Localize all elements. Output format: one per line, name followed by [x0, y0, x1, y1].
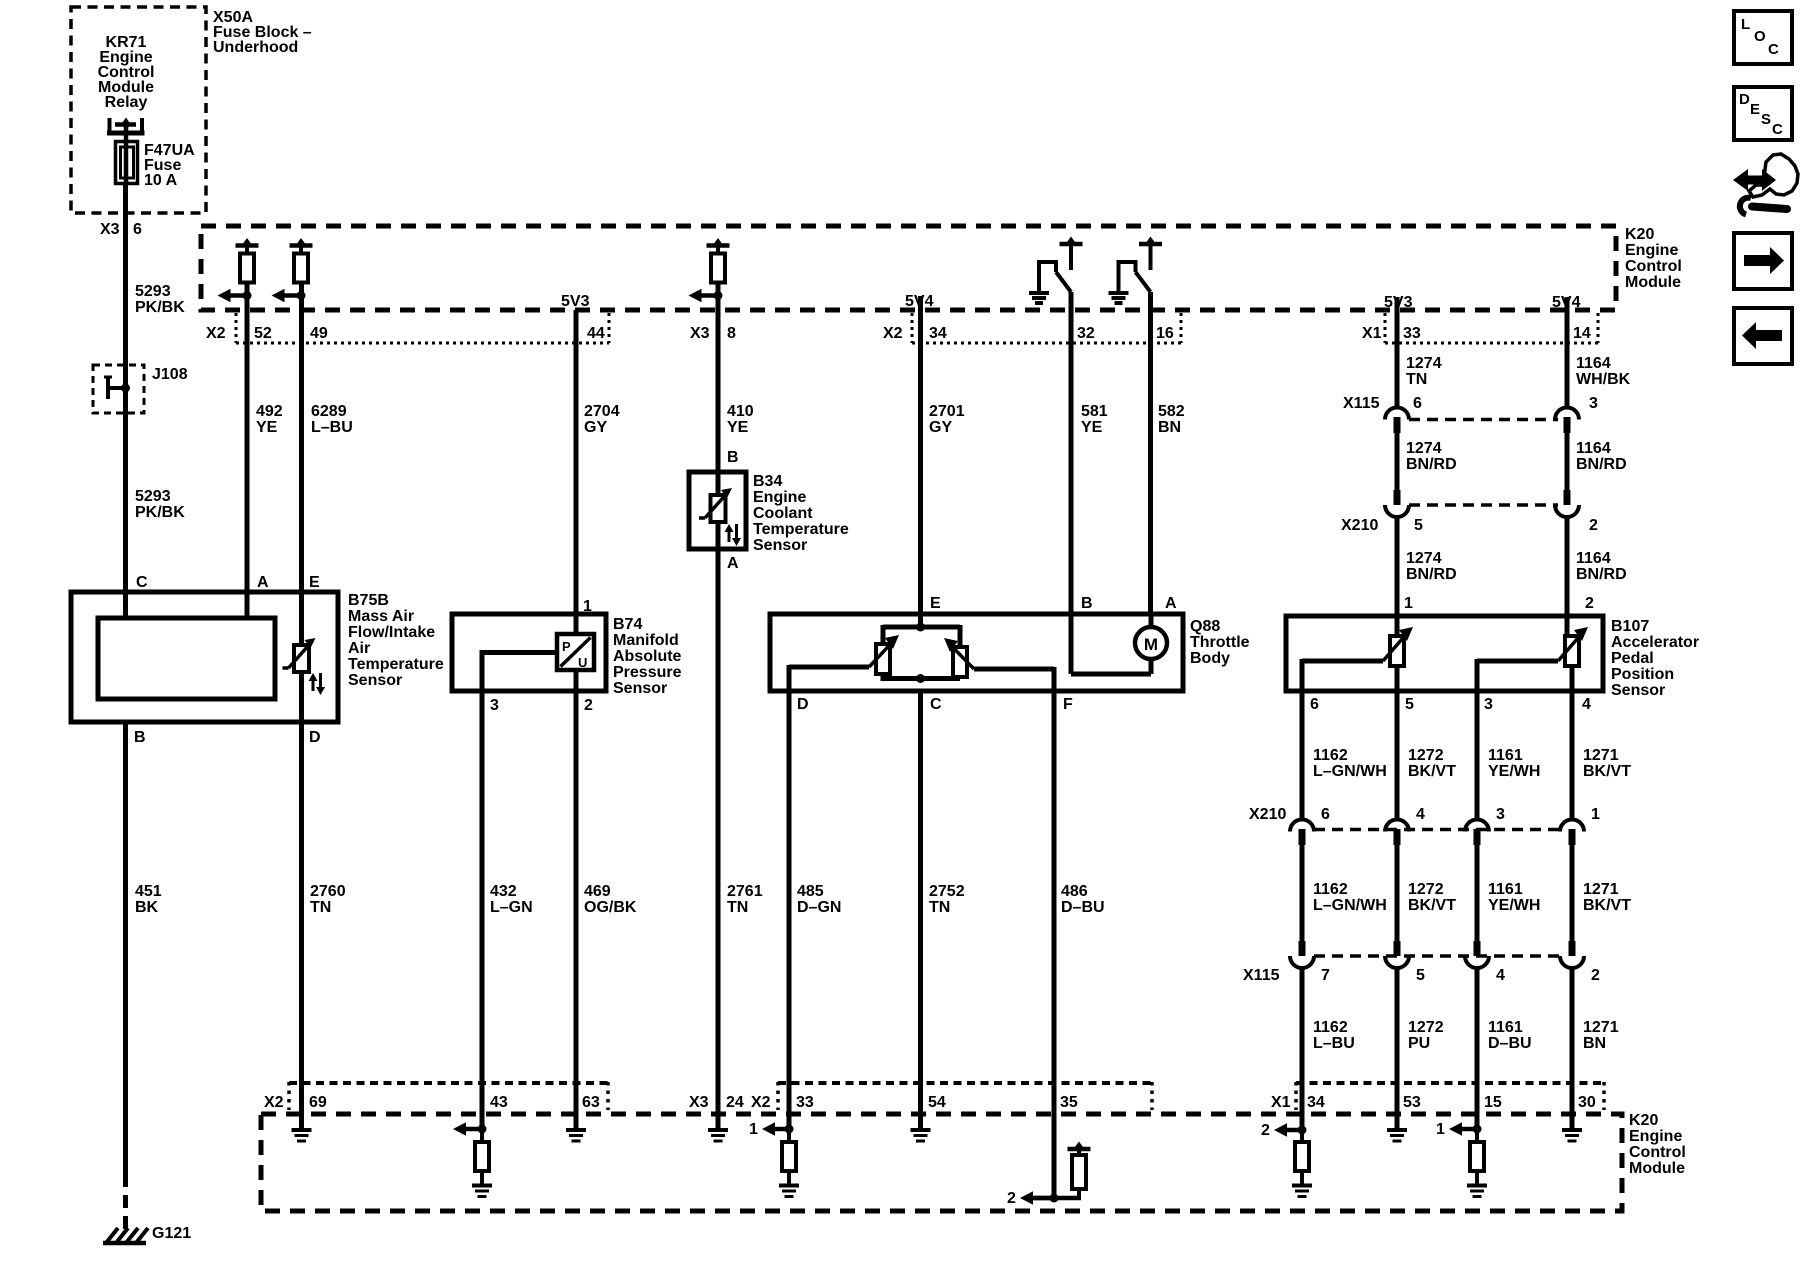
svg-text:1272: 1272: [1408, 747, 1444, 764]
label pin 2 X115 lower: [1591, 967, 1600, 984]
svg-text:581: 581: [1081, 403, 1108, 420]
svg-text:F: F: [1063, 696, 1073, 713]
label wire 1164 WH/BK: [1576, 355, 1631, 388]
splice J108 symbol: [104, 377, 130, 399]
label wire 1164 BN/RD (upper): [1576, 440, 1627, 473]
inline connector X210 pin 2: [1555, 490, 1579, 517]
svg-text:15: 15: [1484, 1094, 1502, 1111]
connector X2 band mid labels: [883, 325, 1174, 342]
icon DESC button: [1734, 87, 1792, 140]
inline connector dashes X210 lower row: [1314, 828, 1560, 832]
svg-text:BK/VT: BK/VT: [1408, 763, 1456, 780]
wire Q88 pot1 top leg: [881, 625, 886, 644]
page arrow at pin X3-8: [689, 289, 723, 303]
label wire 1162 L–GN/WH (mid): [1313, 881, 1387, 914]
label pin 6 X210 lower: [1321, 806, 1330, 823]
svg-text:2: 2: [1261, 1122, 1270, 1139]
svg-text:Flow/Intake: Flow/Intake: [348, 624, 435, 641]
label pin A (B34): [727, 555, 739, 572]
wire 1162 L–GN/WH (B107 pin to X210): [1300, 691, 1305, 820]
svg-text:D: D: [1739, 91, 1750, 108]
connector X1 band top labels: [1362, 325, 1591, 342]
svg-text:5293: 5293: [135, 488, 171, 505]
svg-text:Engine: Engine: [1629, 1128, 1682, 1145]
svg-text:M: M: [1144, 635, 1158, 654]
svg-text:451: 451: [135, 883, 162, 900]
svg-text:6: 6: [1321, 806, 1330, 823]
potentiometer TP sensor 1 (Q88): [869, 635, 899, 674]
svg-text:X210: X210: [1341, 517, 1378, 534]
connector X1 band top (pins 33 14): [1385, 313, 1598, 343]
label B107 Accelerator Pedal Position Sensor: [1611, 618, 1699, 699]
wire 451 BK (MAF B to ground): [123, 722, 128, 1232]
svg-text:TN: TN: [310, 899, 331, 916]
svg-text:5V4: 5V4: [1552, 294, 1581, 311]
wire B74 pin 2 to ECM pin 63 (469 OG/BK): [574, 670, 579, 1128]
label wire 2752 TN: [929, 883, 965, 916]
svg-text:Air: Air: [348, 640, 370, 657]
page arrow 1 at ECM pin 33: [749, 1121, 794, 1138]
thermistor inside B34: [699, 488, 732, 522]
label pin 2 (B107): [1585, 595, 1594, 612]
label wire 410 YE: [727, 403, 754, 436]
svg-text:2: 2: [1007, 1190, 1016, 1207]
svg-text:1272: 1272: [1408, 881, 1444, 898]
wire Q88 internal bottom bus: [881, 674, 960, 683]
ground below resistor pin 33: [779, 1186, 799, 1197]
label pin 2 (B74): [584, 697, 593, 714]
label wire 486 D-BU: [1061, 883, 1105, 916]
svg-text:2752: 2752: [929, 883, 965, 900]
wire B74 internal pin 3 link: [482, 650, 558, 691]
svg-text:X3: X3: [689, 1094, 709, 1111]
connector X2 band top labels: [206, 325, 605, 342]
svg-text:A: A: [257, 574, 269, 591]
svg-text:1161: 1161: [1488, 1019, 1523, 1036]
wire Q88 B to motor: [1071, 614, 1151, 674]
svg-text:Sensor: Sensor: [1611, 682, 1665, 699]
connector X2 band mid (pins 34 32 16): [912, 313, 1181, 343]
label wire 492 YE: [256, 403, 283, 436]
svg-text:1271: 1271: [1583, 747, 1619, 764]
svg-text:X2: X2: [751, 1094, 771, 1111]
wire 1271 BK/VT (X210 to X115): [1570, 843, 1575, 941]
svg-text:1271: 1271: [1583, 1019, 1619, 1036]
wire B107 pot1 to pin 5: [1395, 666, 1400, 691]
connector X1 band bottom labels: [1271, 1094, 1596, 1111]
svg-text:X1: X1: [1271, 1094, 1291, 1111]
icon schematic reference (arrows and wrench): [1733, 154, 1798, 215]
wire 1161 YE/WH (B107 pin to X210): [1475, 691, 1480, 820]
svg-text:L–BU: L–BU: [311, 419, 353, 436]
svg-text:BK/VT: BK/VT: [1583, 763, 1631, 780]
svg-text:C: C: [930, 696, 942, 713]
svg-text:6: 6: [1413, 395, 1422, 412]
svg-text:C: C: [1772, 121, 1783, 138]
page arrow at ECM pin 43: [453, 1122, 487, 1136]
sensor B34 Engine Coolant Temperature Sensor (box): [689, 472, 746, 549]
svg-text:BN/RD: BN/RD: [1406, 566, 1457, 583]
page arrow at pin 52: [218, 289, 252, 303]
svg-text:BN/RD: BN/RD: [1576, 456, 1627, 473]
label B34 Engine Coolant Temperature Sensor: [753, 473, 849, 554]
svg-text:2: 2: [1585, 595, 1594, 612]
label wire 2704 GY: [584, 403, 620, 436]
label wire 1271 BN: [1583, 1019, 1619, 1052]
svg-text:5: 5: [1405, 696, 1414, 713]
inline connector X115 pin 3: [1555, 408, 1579, 433]
svg-text:1164: 1164: [1576, 355, 1611, 372]
svg-text:Body: Body: [1190, 650, 1230, 667]
label pin 3 (B107): [1484, 696, 1493, 713]
svg-text:6: 6: [133, 221, 142, 238]
svg-text:3: 3: [1589, 395, 1598, 412]
ground below resistor pin X1-34: [1292, 1186, 1312, 1197]
svg-text:34: 34: [929, 325, 947, 342]
svg-text:1274: 1274: [1406, 550, 1442, 567]
label X210 (lower row): [1249, 806, 1286, 823]
ground G121 chassis: [103, 1228, 148, 1243]
label wire 2701 GY: [929, 403, 965, 436]
label F47UA Fuse 10 A: [144, 142, 195, 189]
svg-text:C: C: [1768, 41, 1779, 58]
wire 1161 D–BU (X115 to ECM): [1475, 967, 1480, 1129]
wire 581 YE (pin 32 to Q88 B): [1069, 292, 1074, 616]
inline connector X210 pin 3 (lower row): [1465, 820, 1489, 845]
svg-text:5V3: 5V3: [1384, 294, 1413, 311]
svg-text:1: 1: [749, 1121, 758, 1138]
splice J108 (dashed box): [93, 365, 144, 413]
label wire 1162 L–GN/WH (upper): [1313, 747, 1387, 780]
svg-text:Pressure: Pressure: [613, 664, 682, 681]
svg-text:X115: X115: [1243, 967, 1280, 984]
svg-text:TN: TN: [727, 899, 748, 916]
node 5V3 label at pin 44: [561, 293, 590, 310]
sensor B107 Accelerator Pedal Position Sensor (box): [1286, 616, 1603, 691]
svg-text:YE: YE: [727, 419, 749, 436]
svg-text:35: 35: [1060, 1094, 1078, 1111]
label pin 6 X115: [1413, 395, 1422, 412]
svg-text:5V4: 5V4: [905, 293, 934, 310]
wire Q88 pot2 top leg: [958, 625, 963, 647]
label pin D (B75B): [309, 729, 321, 746]
svg-text:A: A: [1165, 595, 1177, 612]
svg-text:Temperature: Temperature: [753, 521, 849, 538]
svg-text:U: U: [578, 655, 587, 670]
label wire 432 L-GN: [490, 883, 533, 916]
label pin 7 X115 lower: [1321, 967, 1330, 984]
svg-text:B75B: B75B: [348, 592, 389, 609]
label wire 1274 BN/RD (lower): [1406, 550, 1457, 583]
wire Q88 pot1 bottom leg: [881, 674, 886, 681]
svg-text:582: 582: [1158, 403, 1185, 420]
wire fuse output to MAF pin C: [123, 183, 128, 620]
label J108: [152, 366, 188, 383]
svg-text:7: 7: [1321, 967, 1330, 984]
svg-text:2701: 2701: [929, 403, 965, 420]
svg-text:Sensor: Sensor: [753, 537, 807, 554]
label wire 581 YE: [1081, 403, 1108, 436]
svg-text:3: 3: [1496, 806, 1505, 823]
svg-text:X210: X210: [1249, 806, 1286, 823]
svg-text:WH/BK: WH/BK: [1576, 371, 1631, 388]
svg-text:Mass Air: Mass Air: [348, 608, 414, 625]
svg-text:10 A: 10 A: [144, 172, 178, 189]
svg-text:PK/BK: PK/BK: [135, 299, 185, 316]
sensor B75B Mass Air Flow/Intake Air Temperature Sensor (outer box): [71, 592, 338, 722]
svg-text:14: 14: [1573, 325, 1591, 342]
svg-text:B: B: [134, 729, 146, 746]
label wire 1274 TN: [1406, 355, 1442, 388]
svg-text:BK/VT: BK/VT: [1408, 897, 1456, 914]
svg-text:54: 54: [928, 1094, 946, 1111]
svg-text:33: 33: [1403, 325, 1421, 342]
motor M (Q88): [1135, 627, 1167, 659]
node 5V4 stub at pin 34: [905, 293, 934, 312]
label pin 5 X210: [1414, 517, 1423, 534]
module K20 Engine Control Module (bottom dashed box): [261, 1114, 1622, 1211]
svg-text:PK/BK: PK/BK: [135, 504, 185, 521]
module K20 Engine Control Module (top dashed box): [201, 226, 1616, 310]
icon previous-page arrow button: [1734, 308, 1792, 364]
svg-text:YE: YE: [256, 419, 278, 436]
wire Q88 internal top bus: [883, 623, 960, 632]
svg-text:43: 43: [490, 1094, 508, 1111]
label wire 5293 PK/BK (upper): [135, 283, 185, 316]
svg-text:6289: 6289: [311, 403, 347, 420]
svg-text:Control: Control: [1625, 258, 1682, 275]
node 5V3 stub at pin X1-33: [1384, 294, 1413, 312]
svg-text:30: 30: [1578, 1094, 1596, 1111]
wire 1274 TN (pin 33 to X115-6): [1395, 310, 1400, 408]
svg-text:D: D: [797, 696, 809, 713]
svg-text:33: 33: [796, 1094, 814, 1111]
label X115 (upper row): [1343, 395, 1380, 412]
wire Q88 wiper1 to pin D: [789, 665, 869, 691]
svg-text:2760: 2760: [310, 883, 346, 900]
ground at ECM pin X3-24: [708, 1130, 728, 1141]
wire 486 D-BU (Q88 F to ECM pin 35): [1052, 691, 1057, 1198]
svg-text:B: B: [727, 449, 739, 466]
svg-text:410: 410: [727, 403, 754, 420]
label pin B (Q88): [1081, 595, 1093, 612]
svg-text:D–GN: D–GN: [797, 899, 841, 916]
connector X3 pin 8 labels: [690, 325, 736, 342]
relay KR71 contact: [107, 118, 145, 144]
wire 1164 BN/RD (X210-2 to B107 pin 2): [1565, 516, 1570, 638]
wire 1274 BN/RD (X210-5 to B107 pin 1): [1395, 516, 1400, 638]
relay KR71 label: [98, 34, 155, 111]
svg-text:YE/WH: YE/WH: [1488, 763, 1540, 780]
svg-text:Q88: Q88: [1190, 618, 1220, 635]
svg-text:G121: G121: [152, 1225, 191, 1242]
svg-text:1: 1: [1404, 595, 1413, 612]
wire 1164 WH/BK (pin 14 to X115-3): [1565, 310, 1570, 408]
page arrow 2 at ECM pin 35: [1007, 1190, 1059, 1207]
wire 1272 PU (X115 to ECM): [1395, 967, 1400, 1128]
wire B107 pot2 to pin 4: [1570, 666, 1575, 691]
wire 1161 YE/WH (X210 to X115): [1475, 843, 1480, 941]
svg-text:L: L: [1741, 16, 1750, 33]
resistor pull-up at ECM pin 49: [290, 238, 313, 283]
svg-text:D–BU: D–BU: [1061, 899, 1105, 916]
label wire 451 BK: [135, 883, 162, 916]
svg-text:5V3: 5V3: [561, 293, 590, 310]
wire 1162 L–GN/WH (X210 to X115): [1300, 843, 1305, 941]
label X210 (upper row): [1341, 517, 1378, 534]
driver switch at ECM pin 16: [1109, 237, 1163, 304]
label pin C (Q88): [930, 696, 942, 713]
label pin 3 X115: [1589, 395, 1598, 412]
svg-text:BN: BN: [1583, 1035, 1606, 1052]
label wire 1161 YE/WH (mid): [1488, 881, 1540, 914]
pressure transducer P/U symbol: [557, 634, 594, 670]
svg-text:63: 63: [582, 1094, 600, 1111]
svg-text:2704: 2704: [584, 403, 620, 420]
svg-text:E: E: [930, 595, 941, 612]
svg-text:469: 469: [584, 883, 611, 900]
potentiometer APP sensor 1 (B107): [1383, 627, 1413, 666]
svg-text:A: A: [727, 555, 739, 572]
label X50A Fuse Block - Underhood: [213, 9, 312, 56]
inline connector X115 pin 2 (lower row): [1560, 941, 1584, 968]
resistor pull-up at ECM pin 52: [236, 238, 259, 283]
wire 2701 GY (pin 34 to Q88 E): [918, 310, 923, 627]
svg-text:3: 3: [490, 697, 499, 714]
inline connector dashes X115 lower row: [1314, 954, 1560, 958]
svg-text:D: D: [309, 729, 321, 746]
label K20 Engine Control Module (top): [1625, 226, 1682, 291]
ground at ECM pin 69: [292, 1130, 312, 1141]
svg-text:492: 492: [256, 403, 283, 420]
inline connector X210 pin 6 (lower row): [1290, 820, 1314, 845]
resistor at ECM pin 33: [782, 1129, 796, 1184]
svg-text:J108: J108: [152, 366, 188, 383]
svg-text:Engine: Engine: [753, 489, 806, 506]
label pin 5 (B107): [1405, 696, 1414, 713]
svg-text:BN/RD: BN/RD: [1406, 456, 1457, 473]
label wire 2761 TN: [727, 883, 763, 916]
connector X2 band bottom-mid labels: [751, 1094, 1078, 1111]
connector X3 pin 24 labels: [689, 1094, 744, 1111]
label Q88 Throttle Body: [1190, 618, 1250, 667]
svg-text:Module: Module: [1629, 1160, 1685, 1177]
svg-text:Absolute: Absolute: [613, 648, 682, 665]
svg-text:53: 53: [1403, 1094, 1421, 1111]
potentiometer TP sensor 2 (Q88): [944, 638, 974, 677]
wire 1272 BK/VT (B107 pin to X210): [1395, 691, 1400, 820]
svg-text:1: 1: [1591, 806, 1600, 823]
sensor B75B inner element box: [98, 618, 275, 699]
wire 582 BN (pin 16 to Q88 A): [1148, 292, 1153, 616]
svg-text:L–GN/WH: L–GN/WH: [1313, 763, 1387, 780]
svg-text:PU: PU: [1408, 1035, 1430, 1052]
svg-text:1272: 1272: [1408, 1019, 1444, 1036]
svg-text:GY: GY: [929, 419, 952, 436]
svg-text:Accelerator: Accelerator: [1611, 634, 1699, 651]
svg-text:S: S: [1761, 111, 1771, 128]
label wire 5293 PK/BK (lower): [135, 488, 185, 521]
svg-text:BK: BK: [135, 899, 159, 916]
label pin 2 X210: [1589, 517, 1598, 534]
wire B34 A to ECM pin X3-24 (2761 TN): [716, 522, 721, 1128]
arrows variable (B75B): [309, 673, 326, 695]
label wire 582 BN: [1158, 403, 1185, 436]
svg-text:1274: 1274: [1406, 355, 1442, 372]
svg-text:B74: B74: [613, 616, 642, 633]
svg-text:D–BU: D–BU: [1488, 1035, 1532, 1052]
svg-text:B34: B34: [753, 473, 782, 490]
label pin A (B75B): [257, 574, 269, 591]
svg-text:24: 24: [726, 1094, 744, 1111]
label wire 1162 L–BU: [1313, 1019, 1355, 1052]
svg-text:B: B: [1081, 595, 1093, 612]
svg-text:X1: X1: [1362, 325, 1382, 342]
svg-text:1274: 1274: [1406, 440, 1442, 457]
ground at ECM pin 54: [911, 1130, 931, 1141]
wire 1272 BK/VT (X210 to X115): [1395, 843, 1400, 941]
label pin D (Q88): [797, 696, 809, 713]
label X3 6 (fuse block pin): [100, 221, 142, 238]
svg-text:L–GN/WH: L–GN/WH: [1313, 897, 1387, 914]
label wire 485 D-GN: [797, 883, 841, 916]
page arrow at pin 49: [272, 289, 306, 303]
label pin 1 (B107): [1404, 595, 1413, 612]
wire 485 D-GN (Q88 D to ECM pin 33): [787, 691, 792, 1129]
icon next-page arrow button: [1734, 233, 1792, 289]
label G121: [152, 1225, 191, 1242]
label pin C: [136, 574, 148, 591]
label pin 5 X115 lower: [1416, 967, 1425, 984]
svg-text:52: 52: [254, 325, 272, 342]
svg-text:X2: X2: [264, 1094, 284, 1111]
svg-text:Sensor: Sensor: [613, 680, 667, 697]
svg-text:Temperature: Temperature: [348, 656, 444, 673]
svg-text:1162: 1162: [1313, 1019, 1348, 1036]
wire 6289 L-BU (pin 49 to MAF E thermistor): [299, 283, 304, 646]
connector X2 band bottom-left labels: [264, 1094, 600, 1111]
svg-text:BN/RD: BN/RD: [1576, 566, 1627, 583]
svg-text:4: 4: [1582, 696, 1591, 713]
wire 1271 BK/VT (B107 pin to X210): [1570, 691, 1575, 820]
label B75B Mass Air Flow/Intake Air Temperature Sensor: [348, 592, 444, 689]
svg-text:4: 4: [1416, 806, 1425, 823]
wire Q88 A to motor: [1149, 614, 1154, 629]
label pin 6 (B107): [1310, 696, 1319, 713]
svg-text:Relay: Relay: [105, 94, 148, 111]
label pin 4 X210 lower: [1416, 806, 1425, 823]
ground below resistor pin 15: [1467, 1186, 1487, 1197]
svg-text:B107: B107: [1611, 618, 1649, 635]
svg-text:1164: 1164: [1576, 440, 1611, 457]
label wire 1164 BN/RD (lower): [1576, 550, 1627, 583]
wire B107 wiper1 to pin 6: [1302, 659, 1383, 691]
wire MAF D to ECM pin 69 (2760 TN): [299, 672, 304, 1128]
svg-text:5293: 5293: [135, 283, 171, 300]
svg-text:Throttle: Throttle: [1190, 634, 1250, 651]
wire B107 wiper2 to pin 3: [1477, 659, 1558, 691]
svg-text:2: 2: [584, 697, 593, 714]
thermistor inside B75B: [283, 638, 316, 672]
page arrow 2 at ECM pin X1-34: [1261, 1122, 1307, 1139]
svg-text:X3: X3: [100, 221, 120, 238]
page arrow 1 at ECM pin 15: [1436, 1121, 1482, 1138]
svg-text:TN: TN: [1406, 371, 1427, 388]
wire 492 YE (pin 52 to MAF A): [245, 283, 250, 621]
svg-text:E: E: [1750, 101, 1760, 118]
svg-text:Position: Position: [1611, 666, 1674, 683]
svg-text:1162: 1162: [1313, 747, 1348, 764]
